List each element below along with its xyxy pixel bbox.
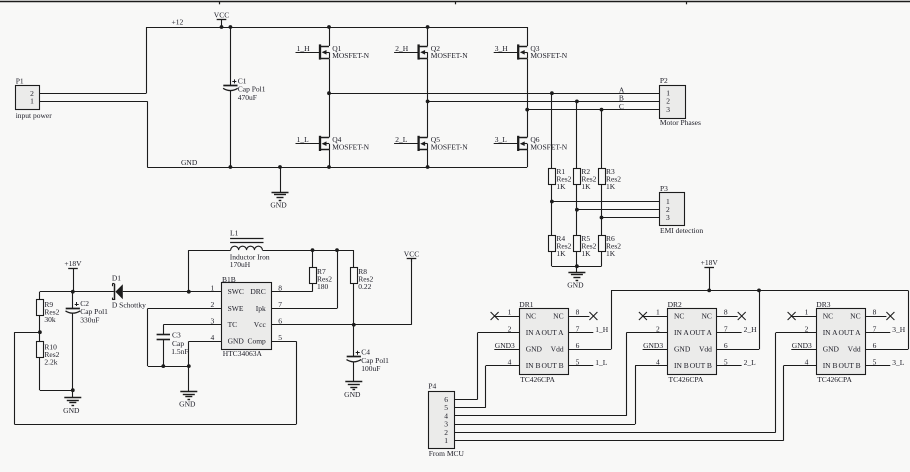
wire DR2 pin1 NC stub bbox=[643, 316, 667, 318]
svg-text:P4: P4 bbox=[428, 382, 436, 391]
svg-text:EMI detection: EMI detection bbox=[660, 226, 703, 235]
svg-text:1_H: 1_H bbox=[297, 44, 311, 53]
svg-text:NC: NC bbox=[526, 311, 536, 320]
wire left vertical from +12 rail to P1 pin 2 bbox=[146, 27, 148, 94]
junction R9/R10 feedback tap bbox=[38, 330, 42, 334]
svg-text:GND: GND bbox=[63, 406, 80, 415]
svg-text:2_L: 2_L bbox=[395, 135, 408, 144]
ground under C4 bbox=[344, 382, 362, 400]
wire DR2 pin2 IN A bbox=[626, 333, 667, 416]
svg-text:VCC: VCC bbox=[214, 11, 229, 20]
junction R7 top bbox=[311, 248, 315, 252]
svg-text:5: 5 bbox=[278, 333, 282, 342]
junction phase C tap bbox=[525, 108, 529, 112]
svg-text:1: 1 bbox=[444, 436, 448, 445]
svg-text:8: 8 bbox=[873, 308, 877, 317]
power port VCC buck output bbox=[404, 249, 419, 262]
IC DR3 TC426CPA bbox=[805, 300, 877, 384]
wire feedback tap to left bbox=[14, 332, 40, 334]
IC DR2 TC426CPA bbox=[656, 300, 728, 384]
wire +18V node horizontal bbox=[40, 291, 114, 293]
svg-text:6: 6 bbox=[724, 341, 728, 350]
wire P4 pin3 to DR2 IN B bbox=[454, 424, 635, 426]
wire bottom gnd link under IC bbox=[148, 366, 189, 368]
svg-text:1K: 1K bbox=[606, 249, 616, 258]
connector P2 bbox=[660, 76, 702, 127]
wire Q2/Q5 column bbox=[427, 27, 429, 167]
svg-text:GND: GND bbox=[270, 201, 287, 210]
wire P1 pin 2 to rail bbox=[40, 93, 147, 95]
svg-text:OUT B: OUT B bbox=[690, 361, 712, 370]
capacitor C4 bbox=[347, 348, 390, 373]
svg-text:IN B: IN B bbox=[823, 361, 838, 370]
svg-text:30k: 30k bbox=[44, 315, 56, 324]
svg-text:GND: GND bbox=[181, 158, 198, 167]
svg-text:TC426CPA: TC426CPA bbox=[520, 375, 555, 384]
connector P1 bbox=[16, 77, 53, 120]
svg-text:1K: 1K bbox=[556, 249, 566, 258]
svg-text:VCC: VCC bbox=[404, 249, 419, 258]
wire phase C bbox=[527, 109, 659, 111]
svg-text:8: 8 bbox=[576, 308, 580, 317]
svg-text:IN A: IN A bbox=[674, 328, 689, 337]
wire GND pin 4 and riser bbox=[189, 341, 222, 366]
wire DR3 pin3 GND with net label GND3 bbox=[791, 341, 816, 350]
wire L1 riser to SWC node bbox=[188, 250, 190, 292]
wire DR2 pin3 GND with net label GND3 bbox=[643, 341, 668, 350]
svg-text:3_L: 3_L bbox=[892, 358, 905, 367]
svg-text:3: 3 bbox=[666, 105, 670, 114]
wire DR3 pin5 OUT B with net label 3_L bbox=[866, 358, 905, 367]
transistor Q1 bbox=[296, 44, 370, 60]
svg-text:IN B: IN B bbox=[526, 361, 541, 370]
wire DR1 pin1 NC stub bbox=[495, 316, 519, 318]
capacitor C4 wires bbox=[353, 325, 355, 382]
capacitor C1 vertical wires bbox=[230, 27, 232, 167]
capacitor C2 bbox=[66, 299, 109, 324]
svg-text:180: 180 bbox=[317, 282, 329, 291]
junction ground stem on GND rail bbox=[278, 165, 282, 169]
svg-text:GND: GND bbox=[228, 337, 245, 346]
svg-text:MOSFET-N: MOSFET-N bbox=[332, 51, 369, 60]
svg-text:8: 8 bbox=[278, 283, 282, 292]
wire DR3 pin7 OUT A with net label 3_H bbox=[866, 325, 906, 334]
junction VCC rail bbox=[220, 25, 224, 29]
ground EMI divider bbox=[567, 266, 585, 289]
svg-text:GND: GND bbox=[344, 390, 361, 399]
wire phase B bbox=[428, 101, 660, 103]
power port +18V drivers bbox=[701, 258, 719, 290]
wire DR1 pin4 IN B bbox=[486, 366, 520, 408]
svg-text:100uF: 100uF bbox=[361, 364, 380, 373]
svg-text:D1: D1 bbox=[112, 274, 121, 283]
wire DR3 pin8 NC stub bbox=[866, 316, 887, 318]
svg-text:+12: +12 bbox=[172, 17, 184, 26]
wire R3 column bbox=[601, 110, 603, 267]
inductor L1 bbox=[189, 229, 270, 270]
sheet border zone tick 2 bbox=[455, 2, 457, 5]
junction C1 GND rail bbox=[229, 165, 233, 169]
wire DR3 pin1 NC stub bbox=[792, 316, 816, 318]
svg-text:DR3: DR3 bbox=[816, 300, 830, 309]
no-connect X DR1 pin8 bbox=[589, 312, 597, 320]
wire Q1/Q4 column bbox=[329, 27, 331, 167]
wire phase A bbox=[329, 93, 660, 95]
no-connect X DR1 pin1 bbox=[491, 312, 499, 320]
connector P4 bbox=[428, 382, 464, 458]
junction L1 riser / SWC bbox=[187, 290, 191, 294]
junction R5 bottom on ground link bbox=[575, 264, 579, 268]
resistor R7 wires bbox=[271, 250, 312, 292]
transistor Q6 bbox=[494, 135, 568, 151]
svg-text:MOSFET-N: MOSFET-N bbox=[431, 51, 468, 60]
svg-text:NC: NC bbox=[701, 311, 711, 320]
wire +12 top rail bbox=[146, 27, 527, 29]
junction R1 top on phase A bbox=[550, 91, 554, 95]
junction R2 top on phase B bbox=[575, 100, 579, 104]
svg-text:MOSFET-N: MOSFET-N bbox=[431, 143, 468, 152]
svg-text:+18V: +18V bbox=[64, 259, 82, 268]
svg-text:GND3: GND3 bbox=[495, 341, 515, 350]
svg-text:OUT B: OUT B bbox=[838, 361, 860, 370]
resistor R5 bbox=[574, 234, 597, 258]
wire tap3 to P3 pin3 bbox=[602, 217, 660, 219]
sheet border zone tick 3 bbox=[686, 2, 688, 5]
wire DR1 pin6 Vdd riser bbox=[569, 290, 612, 349]
svg-text:2_H: 2_H bbox=[395, 44, 409, 53]
svg-text:330uF: 330uF bbox=[80, 315, 99, 324]
junction phase B tap bbox=[426, 100, 430, 104]
junction phase A tap bbox=[327, 91, 331, 95]
junction C1 top rail bbox=[229, 25, 233, 29]
sheet border zone tick 1 bbox=[219, 2, 221, 5]
junction R2/R5 tap bbox=[575, 208, 579, 212]
svg-text:P1: P1 bbox=[16, 77, 24, 86]
diode D1 Schottky bbox=[112, 274, 146, 310]
connector P3 bbox=[660, 184, 704, 235]
svg-text:GND3: GND3 bbox=[643, 341, 663, 350]
wire DR3 pin4 IN B bbox=[784, 366, 817, 441]
wire tap2 to P3 pin2 bbox=[577, 209, 660, 211]
junction Q4 source at GND rail bbox=[327, 165, 331, 169]
svg-text:6: 6 bbox=[576, 341, 580, 350]
svg-text:OUT B: OUT B bbox=[541, 361, 563, 370]
wire left vertical P1 pin1 to GND rail bbox=[147, 101, 149, 167]
wire Ipk pin 7 riser bbox=[271, 250, 337, 308]
svg-text:3_L: 3_L bbox=[495, 135, 508, 144]
wire Q3/Q6 column bbox=[527, 27, 529, 167]
junction Q2 drain at +12 rail bbox=[426, 25, 430, 29]
junction R3/R6 tap bbox=[600, 216, 604, 220]
wire D1 to SWC pin bbox=[123, 291, 222, 293]
wire P4 pin5 to DR1 IN B bbox=[454, 407, 486, 409]
wire L1 to R8 top bbox=[262, 250, 353, 252]
power port VCC top bbox=[214, 11, 229, 27]
sheet border top line bbox=[0, 1, 910, 3]
wire +18V driver rail bbox=[611, 290, 908, 292]
svg-text:8: 8 bbox=[724, 308, 728, 317]
wire DR1 pin5 OUT B with net label 1_L bbox=[569, 358, 608, 367]
svg-text:IN A: IN A bbox=[823, 328, 838, 337]
svg-text:1: 1 bbox=[30, 97, 34, 106]
svg-text:2_L: 2_L bbox=[744, 358, 757, 367]
svg-text:2.2k: 2.2k bbox=[44, 357, 57, 366]
junction Q1 drain at +12 rail bbox=[327, 25, 331, 29]
svg-text:MOSFET-N: MOSFET-N bbox=[530, 51, 567, 60]
transistor Q2 bbox=[394, 44, 468, 60]
wire DR2 pin4 IN B bbox=[635, 366, 667, 425]
resistor R10 wires bbox=[39, 332, 41, 390]
wire SWE pin 2 and riser bbox=[148, 308, 222, 366]
svg-text:GND: GND bbox=[526, 345, 543, 354]
ground power section bbox=[270, 167, 288, 210]
svg-text:+18V: +18V bbox=[701, 258, 719, 267]
svg-text:170uH: 170uH bbox=[230, 260, 251, 269]
junction Q5 source at GND rail bbox=[426, 165, 430, 169]
svg-text:input power: input power bbox=[16, 111, 53, 120]
no-connect X DR2 pin8 bbox=[738, 312, 746, 320]
svg-text:1K: 1K bbox=[581, 249, 591, 258]
svg-text:D Schottky: D Schottky bbox=[112, 300, 146, 309]
junction C3 bottom bbox=[161, 364, 165, 368]
junction R8 bottom on Vcc line bbox=[352, 323, 356, 327]
power port +18V buck bbox=[64, 259, 82, 292]
svg-text:GND: GND bbox=[179, 400, 196, 409]
svg-text:SWC: SWC bbox=[228, 287, 244, 296]
resistor R8 bbox=[351, 267, 374, 291]
junction +18V stem on rail bbox=[707, 289, 711, 293]
svg-text:7: 7 bbox=[278, 300, 282, 309]
svg-text:3_H: 3_H bbox=[892, 325, 906, 334]
svg-text:P3: P3 bbox=[660, 184, 668, 193]
svg-text:GND: GND bbox=[567, 281, 584, 290]
resistor R2 bbox=[574, 167, 597, 191]
svg-text:1K: 1K bbox=[556, 182, 566, 191]
capacitor C2 wires bbox=[72, 292, 74, 391]
ground under IC bbox=[179, 366, 197, 409]
svg-text:P2: P2 bbox=[660, 76, 668, 85]
svg-text:Motor Phases: Motor Phases bbox=[660, 118, 701, 127]
svg-text:NC: NC bbox=[823, 311, 833, 320]
svg-text:1_L: 1_L bbox=[595, 358, 608, 367]
wire tap1 to P3 pin1 bbox=[552, 201, 660, 203]
svg-text:OUT A: OUT A bbox=[690, 328, 713, 337]
capacitor C1 bbox=[223, 76, 266, 101]
svg-text:3_H: 3_H bbox=[495, 44, 509, 53]
svg-text:TC: TC bbox=[228, 320, 238, 329]
wire R10 bottom to C2 bottom bbox=[40, 390, 73, 392]
wire DR1 pin8 NC stub bbox=[569, 316, 590, 318]
resistor R9 bbox=[37, 300, 60, 324]
ground under C2 bbox=[63, 390, 81, 415]
svg-text:NC: NC bbox=[850, 311, 860, 320]
wire P4 pin6 to DR1 IN A bbox=[454, 399, 478, 401]
svg-text:2_H: 2_H bbox=[744, 325, 758, 334]
wire P4 pin1 to DR3 IN B bbox=[454, 440, 784, 442]
resistor R1 bbox=[549, 167, 572, 191]
wire P1 pin 1 bbox=[40, 101, 148, 103]
resistor R7 bbox=[310, 267, 333, 291]
svg-text:1.5nF: 1.5nF bbox=[171, 347, 188, 356]
wire R1 column bbox=[551, 93, 553, 266]
wire DR1 pin3 GND with net label GND3 bbox=[494, 341, 519, 350]
no-connect X DR2 pin1 bbox=[639, 312, 647, 320]
svg-text:OUT A: OUT A bbox=[838, 328, 861, 337]
resistor R10 bbox=[37, 342, 60, 367]
svg-text:SWE: SWE bbox=[228, 304, 244, 313]
svg-text:HTC34063A: HTC34063A bbox=[223, 349, 263, 358]
svg-text:From MCU: From MCU bbox=[429, 449, 465, 458]
svg-text:Ipk: Ipk bbox=[256, 304, 266, 313]
capacitor C3 bbox=[157, 325, 189, 366]
svg-text:GND3: GND3 bbox=[792, 341, 812, 350]
svg-text:0.22: 0.22 bbox=[358, 282, 371, 291]
wire Vcc pin 6 to VCC port bbox=[271, 259, 411, 325]
svg-text:DRC: DRC bbox=[250, 287, 265, 296]
svg-text:IN A: IN A bbox=[526, 328, 541, 337]
transistor Q3 bbox=[494, 44, 568, 60]
svg-text:OUT A: OUT A bbox=[541, 328, 564, 337]
svg-text:1: 1 bbox=[508, 308, 512, 317]
svg-text:4: 4 bbox=[211, 333, 215, 342]
wire TC pin 3 bbox=[163, 324, 222, 326]
svg-text:1_H: 1_H bbox=[595, 325, 609, 334]
svg-text:Vdd: Vdd bbox=[848, 345, 861, 354]
resistor R6 bbox=[599, 234, 622, 258]
svg-text:C: C bbox=[619, 102, 624, 111]
junction pin4 gnd node bbox=[187, 364, 191, 368]
svg-text:470uF: 470uF bbox=[238, 93, 257, 102]
transistor Q4 bbox=[296, 135, 370, 151]
svg-text:NC: NC bbox=[553, 311, 563, 320]
svg-text:GND: GND bbox=[674, 345, 691, 354]
transistor Q5 bbox=[394, 135, 468, 151]
no-connect X DR3 pin1 bbox=[788, 312, 796, 320]
svg-text:GND: GND bbox=[823, 345, 840, 354]
resistor R3 bbox=[599, 167, 622, 191]
junction C2 bottom / ground bbox=[71, 388, 75, 392]
svg-text:DR2: DR2 bbox=[668, 300, 682, 309]
wire DR1 pin2 IN A bbox=[478, 333, 520, 400]
svg-text:1: 1 bbox=[211, 283, 215, 292]
svg-text:IN B: IN B bbox=[674, 361, 689, 370]
wire ground link under R4 R5 R6 bbox=[552, 266, 602, 268]
svg-text:Vdd: Vdd bbox=[699, 345, 712, 354]
svg-text:1K: 1K bbox=[581, 182, 591, 191]
svg-text:L1: L1 bbox=[230, 229, 239, 238]
no-connect X DR3 pin8 bbox=[886, 312, 894, 320]
svg-text:1_L: 1_L bbox=[297, 135, 310, 144]
svg-text:B1B: B1B bbox=[222, 275, 236, 284]
junction R1/R4 tap bbox=[550, 200, 554, 204]
op-amp U1 regulator IC B1B HTC34063A bbox=[211, 275, 283, 358]
wire P4 pin2 to DR3 IN A bbox=[454, 432, 776, 434]
svg-text:MOSFET-N: MOSFET-N bbox=[332, 143, 369, 152]
wire DR2 pin5 OUT B with net label 2_L bbox=[717, 358, 756, 367]
junction Ipk riser top bbox=[335, 248, 339, 252]
svg-text:6: 6 bbox=[873, 341, 877, 350]
junction DR2 Vdd riser on rail bbox=[757, 289, 761, 293]
wire DR3 pin6 Vdd riser bbox=[866, 290, 909, 349]
wire P4 pin4 to DR2 IN A bbox=[454, 415, 626, 417]
wire R2 column bbox=[576, 101, 578, 266]
wire feedback loop left and bottom to Comp pin bbox=[14, 332, 296, 424]
wire DR1 pin7 OUT A with net label 1_H bbox=[569, 325, 609, 334]
svg-text:2: 2 bbox=[211, 300, 215, 309]
junction +18V / C2 node bbox=[71, 290, 75, 294]
svg-text:3: 3 bbox=[666, 213, 670, 222]
svg-text:TC426CPA: TC426CPA bbox=[817, 375, 852, 384]
svg-text:Vcc: Vcc bbox=[254, 320, 267, 329]
svg-text:NC: NC bbox=[674, 311, 684, 320]
wire DR2 pin6 Vdd riser bbox=[717, 290, 760, 349]
junction R3 top on phase C bbox=[600, 108, 604, 112]
resistor R8 wires bbox=[353, 250, 355, 325]
svg-text:6: 6 bbox=[278, 316, 282, 325]
svg-text:1: 1 bbox=[805, 308, 809, 317]
svg-text:TC426CPA: TC426CPA bbox=[669, 375, 704, 384]
svg-text:MOSFET-N: MOSFET-N bbox=[530, 143, 567, 152]
wire DR2 pin8 NC stub bbox=[717, 316, 738, 318]
IC DR1 TC426CPA bbox=[508, 300, 580, 384]
svg-text:1: 1 bbox=[656, 308, 660, 317]
svg-text:DR1: DR1 bbox=[519, 300, 533, 309]
wire DR3 pin2 IN A bbox=[776, 333, 817, 433]
resistor R4 bbox=[549, 234, 572, 258]
wire DR2 pin7 OUT A with net label 2_H bbox=[717, 325, 757, 334]
svg-text:Vdd: Vdd bbox=[551, 345, 564, 354]
wire GND bottom rail bbox=[147, 167, 527, 169]
svg-text:1K: 1K bbox=[606, 182, 616, 191]
svg-text:Comp: Comp bbox=[247, 337, 266, 346]
resistor R9 wires bbox=[39, 292, 41, 333]
